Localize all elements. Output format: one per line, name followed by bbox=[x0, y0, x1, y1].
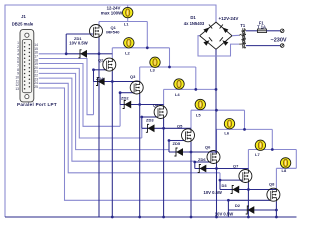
wire source column Q6 bbox=[216, 164, 218, 218]
wire drain Q8 bbox=[275, 168, 277, 188]
junction bbox=[146, 46, 149, 49]
wire drain Q1 bbox=[98, 22, 100, 25]
wire source extension channel 5 bbox=[191, 151, 217, 153]
wire zener branch Q5 bbox=[168, 141, 170, 153]
wire fuse to terminal bbox=[267, 30, 281, 32]
wire pin riser channel 3 bbox=[119, 105, 121, 127]
node gate junction Q1 bbox=[65, 52, 68, 55]
connector J1 mounting hole top bbox=[25, 33, 29, 37]
svg-text:L8: L8 bbox=[282, 168, 287, 173]
lamp L3 bbox=[150, 57, 160, 67]
wire step drop 5-6 bbox=[244, 110, 246, 129]
zener diode ZD1 channel 1 bbox=[78, 50, 87, 58]
wire source column Q4 bbox=[163, 119, 165, 218]
svg-text:J1: J1 bbox=[21, 14, 26, 19]
wire LPT pin to channel 1 bbox=[39, 53, 66, 55]
wire source column Q3 bbox=[139, 94, 141, 217]
wire pin riser channel 2 bbox=[93, 82, 95, 115]
node zener-source junction channel 2 bbox=[111, 80, 114, 83]
node ground rail junction Q4 bbox=[162, 216, 165, 219]
svg-text:L2: L2 bbox=[125, 50, 130, 55]
wire zener line channel 3 bbox=[120, 104, 140, 106]
bridge diode top-right bbox=[222, 27, 228, 33]
svg-text:max 100W: max 100W bbox=[101, 11, 123, 16]
node gate junction Q5 bbox=[168, 139, 171, 142]
terminal mains N bbox=[280, 44, 284, 48]
node ground rail junction Q8 bbox=[275, 216, 278, 219]
zener diode ZD3 channel 4 bbox=[146, 124, 155, 132]
svg-text:DB25 male: DB25 male bbox=[12, 21, 34, 26]
node ground rail junction Q5 bbox=[190, 216, 193, 219]
node zener-source junction channel 8 bbox=[275, 209, 278, 212]
svg-text:12-24V: 12-24V bbox=[107, 5, 121, 10]
junction bbox=[194, 88, 197, 91]
wire step drop 1-2 bbox=[146, 22, 148, 48]
lamp L2 bbox=[124, 38, 134, 48]
wire drain Q3 bbox=[139, 67, 141, 81]
wire zener line channel 8 bbox=[228, 209, 276, 211]
svg-text:Q6: Q6 bbox=[205, 145, 211, 150]
terminal mains L bbox=[280, 29, 284, 33]
wire drain Q6 bbox=[216, 129, 218, 150]
wire zener line channel 2 bbox=[94, 81, 113, 83]
wire lamp step 2 bbox=[112, 47, 169, 49]
wire zener branch Q7 bbox=[219, 180, 221, 189]
wire zener branch Q6 bbox=[194, 162, 196, 169]
lamp L6 bbox=[224, 119, 234, 130]
transistor Q5 IRF540 bbox=[182, 129, 195, 142]
svg-text:D3: D3 bbox=[222, 183, 228, 188]
wire transformer to terminal N bbox=[246, 45, 280, 47]
wire gate Q1 bbox=[66, 33, 93, 35]
svg-text:Q2: Q2 bbox=[98, 58, 104, 63]
wire LPT pin to channel 7 bbox=[39, 83, 220, 173]
wire transformer to fuse bbox=[246, 30, 258, 32]
transistor Q3 IRF540 bbox=[130, 81, 143, 94]
junction bbox=[243, 128, 246, 131]
wire gate Q2 bbox=[94, 69, 107, 71]
wire bridge AC right to transformer bbox=[232, 34, 239, 36]
zener diode ZD2 channel 3 bbox=[123, 101, 132, 109]
wire zener branch Q2 bbox=[93, 70, 95, 82]
junction bbox=[168, 66, 171, 69]
wire step drop 2-3 bbox=[169, 48, 171, 67]
connector J1 pin field bbox=[22, 40, 31, 93]
transistor Q4 IRF540 bbox=[154, 106, 167, 119]
lamp L1 bbox=[123, 5, 133, 22]
wire source extension channel 3 bbox=[140, 104, 164, 106]
wire source column Q5 bbox=[190, 142, 192, 217]
node gate junction Q6 bbox=[193, 161, 196, 164]
svg-text:+12V-24V: +12V-24V bbox=[219, 16, 239, 21]
wire zener line channel 5 bbox=[169, 151, 191, 153]
node zener-source junction channel 1 bbox=[98, 52, 101, 55]
zener diode D2 channel 8 bbox=[246, 206, 255, 214]
svg-text:4x 1N5403: 4x 1N5403 bbox=[184, 21, 205, 26]
svg-text:L6: L6 bbox=[224, 131, 229, 136]
svg-text:L4: L4 bbox=[175, 92, 180, 97]
wire gate Q3 bbox=[120, 92, 133, 94]
transistor Q7 IRF540 bbox=[239, 170, 252, 183]
wire ground bottom rail bbox=[5, 216, 297, 218]
zener diode ZD4 channel 2 bbox=[96, 78, 105, 86]
node gate junction Q2 bbox=[92, 68, 95, 71]
svg-text:Q3: Q3 bbox=[130, 74, 136, 79]
wire lamp step 4 bbox=[164, 88, 216, 90]
bridge rectifier D1 diamond bbox=[200, 22, 232, 49]
wire gate Q6 bbox=[195, 161, 211, 163]
wire gate Q7 bbox=[220, 179, 242, 181]
transistor Q2 IRF540 bbox=[103, 58, 116, 71]
wire source extension channel 4 bbox=[164, 127, 191, 129]
wire bridge AC left to transformer bbox=[198, 36, 239, 56]
transistor Q6 IRF540 bbox=[207, 151, 220, 164]
zener diode ZD5 channel 5 bbox=[174, 148, 183, 156]
svg-text:ZD2: ZD2 bbox=[121, 96, 129, 101]
wire source column Q2 bbox=[111, 71, 113, 217]
svg-text:Q4: Q4 bbox=[153, 102, 159, 107]
svg-text:L7: L7 bbox=[255, 152, 260, 157]
wire zener branch Q4 bbox=[141, 117, 143, 128]
node ground rail junction Q6 bbox=[215, 216, 218, 219]
svg-text:T 1A: T 1A bbox=[257, 24, 266, 29]
svg-text:Q5: Q5 bbox=[177, 123, 183, 128]
wire zener line channel 7 bbox=[220, 189, 248, 191]
lamp L7 bbox=[255, 140, 265, 150]
transformer T1 bbox=[239, 28, 246, 48]
svg-text:L1: L1 bbox=[124, 22, 129, 27]
node gate junction Q3 bbox=[119, 91, 122, 94]
svg-text:D2: D2 bbox=[235, 203, 241, 208]
wire zener line channel 1 bbox=[66, 53, 99, 55]
svg-text:10V 0.5W: 10V 0.5W bbox=[204, 190, 222, 195]
wire pin riser channel 4 bbox=[141, 128, 143, 138]
wire gate Q5 bbox=[169, 140, 185, 142]
wire source extension channel 6 bbox=[217, 168, 249, 170]
wire source extension channel 1 bbox=[99, 53, 112, 55]
node zener-source junction channel 7 bbox=[247, 188, 250, 191]
node ground rail junction Q7 bbox=[247, 216, 250, 219]
wire lamp step 7 bbox=[248, 149, 296, 151]
wire lamp step 5 bbox=[191, 109, 245, 111]
connector J1 mounting hole bottom bbox=[25, 95, 29, 99]
svg-text:ZD6: ZD6 bbox=[198, 157, 206, 162]
transistor Q1 IRF540 bbox=[90, 25, 103, 38]
lamp L4 bbox=[174, 79, 184, 90]
node zener-source junction channel 6 bbox=[215, 167, 218, 170]
wire lamp step 8 bbox=[276, 167, 296, 169]
svg-text:ZD5: ZD5 bbox=[173, 141, 181, 146]
node zener-source junction channel 5 bbox=[190, 151, 193, 154]
lamp L8 bbox=[280, 158, 290, 169]
wire lamp step 3 bbox=[140, 66, 196, 68]
svg-text:Q7: Q7 bbox=[233, 164, 239, 169]
junction bbox=[215, 109, 218, 112]
svg-text:D1: D1 bbox=[190, 15, 196, 20]
svg-text:T1: T1 bbox=[240, 23, 246, 28]
junction bbox=[215, 88, 218, 91]
bridge diode bottom-left bbox=[203, 40, 209, 46]
wire LPT pin to channel 5 bbox=[39, 73, 169, 149]
wire LPT pin to channel 2 bbox=[39, 59, 94, 115]
wire +V top rail and left frame rail bbox=[5, 5, 216, 217]
wire source column Q1 bbox=[98, 38, 100, 218]
wire source extension channel 2 bbox=[112, 81, 139, 83]
junction bbox=[271, 148, 274, 151]
svg-text:L5: L5 bbox=[196, 113, 201, 118]
wire gate Q8 bbox=[228, 199, 270, 201]
svg-text:10V 0.5W: 10V 0.5W bbox=[69, 41, 87, 46]
wire LPT pin to channel 3 bbox=[39, 64, 120, 127]
wire LPT pin to channel 8 bbox=[39, 88, 229, 200]
wire source column Q8 bbox=[275, 201, 277, 217]
node ground rail junction Q2 bbox=[111, 216, 114, 219]
node ground rail junction Q3 bbox=[138, 216, 141, 219]
wire bridge DC+ trunk bbox=[215, 49, 217, 153]
zener diode D3 channel 7 bbox=[231, 186, 240, 194]
zener diode ZD6 channel 6 bbox=[198, 165, 207, 173]
wire LPT pin to channel 4 bbox=[39, 68, 142, 138]
svg-text:~230V: ~230V bbox=[271, 37, 287, 43]
wire lamp step 6 bbox=[217, 128, 273, 130]
svg-text:ZD4: ZD4 bbox=[96, 76, 104, 81]
wire gate Q4 bbox=[142, 116, 158, 118]
svg-text:IRF540: IRF540 bbox=[106, 29, 120, 34]
wire step drop 7-8 bbox=[295, 150, 297, 169]
lamp L5 bbox=[195, 99, 205, 110]
node zener-source junction channel 3 bbox=[138, 103, 141, 106]
svg-text:10V 0.5W: 10V 0.5W bbox=[215, 211, 233, 216]
svg-text:ZD3: ZD3 bbox=[146, 117, 154, 122]
wire step drop 6-7 bbox=[271, 129, 273, 149]
transistor Q8 IRF540 bbox=[267, 188, 280, 201]
node zener-source junction channel 4 bbox=[162, 127, 165, 130]
node gate junction Q7 bbox=[219, 179, 222, 182]
wire zener line channel 6 bbox=[195, 168, 217, 170]
node gate junction Q4 bbox=[140, 116, 143, 119]
wire lamp step 1 bbox=[99, 21, 147, 23]
wire LPT pin to channel 6 bbox=[39, 78, 195, 161]
wire zener branch Q1 bbox=[65, 34, 67, 54]
wire drain Q5 bbox=[190, 110, 192, 129]
wire pin riser channel 7 bbox=[219, 173, 221, 180]
svg-text:13: 13 bbox=[15, 87, 19, 91]
bridge diode top-left bbox=[203, 27, 209, 33]
wire zener branch Q8 bbox=[227, 200, 229, 217]
svg-text:Paralel Port LPT: Paralel Port LPT bbox=[17, 102, 57, 107]
svg-text:25: 25 bbox=[34, 85, 38, 89]
wire drain Q7 bbox=[247, 150, 249, 170]
connector J1 DB25 male shell bbox=[20, 30, 34, 102]
wire zener line channel 4 bbox=[142, 127, 164, 129]
svg-text:L3: L3 bbox=[150, 68, 155, 73]
wire source extension channel 7 bbox=[248, 189, 276, 191]
fuse F1 bbox=[258, 29, 267, 33]
node gate junction Q8 bbox=[227, 199, 230, 202]
wire source column Q7 bbox=[247, 183, 249, 218]
wire zener branch Q3 bbox=[119, 93, 121, 105]
bridge diode bottom-right bbox=[222, 40, 228, 46]
svg-text:Q8: Q8 bbox=[269, 181, 275, 186]
wire drain Q4 bbox=[163, 89, 165, 105]
wire pin riser channel 6 bbox=[194, 160, 196, 163]
wire step drop 3-4 bbox=[195, 67, 197, 89]
wire drain Q2 bbox=[111, 48, 113, 58]
